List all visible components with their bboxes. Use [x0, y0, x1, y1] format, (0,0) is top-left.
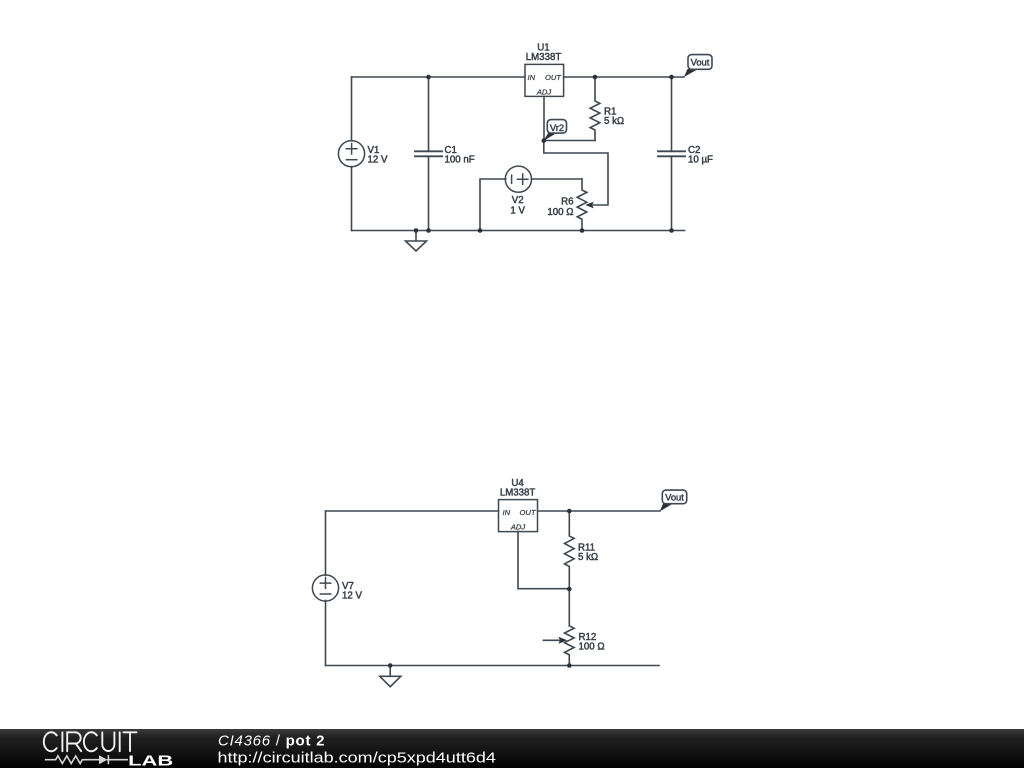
junction ADJ / Vr2 node [542, 138, 547, 143]
wire ADJ pin vertical [543, 96, 545, 140]
junction R6 bottom [580, 228, 585, 233]
wire ADJ down and right [518, 532, 569, 589]
wire C1 vertical [428, 77, 430, 231]
footer bar [0, 729, 1024, 768]
potentiometer R12 [565, 626, 575, 666]
op regulator U1 box [525, 64, 564, 96]
net flag Vr2 [543, 120, 566, 141]
junction C1 top [426, 75, 431, 80]
wire OUT rail (U1 OUT to Vout tail) [564, 76, 684, 78]
wire bottom rail [352, 230, 685, 232]
junction ground rail (lower) [388, 663, 393, 668]
svg-text:5 kΩ: 5 kΩ [604, 116, 624, 127]
wiper arrow into R6 [585, 202, 594, 209]
svg-text:5 kΩ: 5 kΩ [578, 552, 598, 563]
wire V7 vertical [325, 511, 327, 666]
capacitor C2 [658, 151, 685, 156]
junction R1 top [593, 75, 598, 80]
junction R12 bottom [567, 663, 572, 668]
svg-text:ADJ: ADJ [510, 523, 526, 532]
ground (lower) [380, 666, 401, 687]
ground (upper) [406, 231, 427, 252]
capacitor C1 [415, 151, 442, 156]
wire R1 bottom to ADJ node [544, 140, 595, 142]
svg-text:OUT: OUT [545, 73, 562, 82]
junction R11/ADJ node [567, 587, 572, 592]
wire bottom rail [326, 665, 660, 667]
junction ground rail [414, 228, 419, 233]
svg-text:CI4366 / pot 2: CI4366 / pot 2 [218, 732, 325, 749]
svg-text:IN: IN [528, 73, 536, 82]
wire OUT rail (U4 to Vout tail) [538, 510, 660, 512]
svg-text:http://circuitlab.com/cp5xpd4u: http://circuitlab.com/cp5xpd4utt6d4 [218, 749, 496, 766]
regulator U4 box [499, 500, 538, 532]
svg-text:ADJ: ADJ [536, 87, 552, 96]
wire top rail left (V7 to U4 IN) [326, 510, 499, 512]
voltage source V7 [312, 575, 338, 601]
resistor R11 [565, 511, 575, 589]
wire top rail left (V1 top to U1 IN) [352, 76, 526, 78]
svg-text:Vout: Vout [691, 57, 710, 68]
svg-text:Vr2: Vr2 [550, 122, 564, 133]
potentiometer R6 [577, 179, 587, 231]
svg-text:Vout: Vout [665, 492, 684, 503]
svg-text:12 V: 12 V [342, 591, 362, 602]
junction C1 bottom [426, 228, 431, 233]
wire V2 left [480, 179, 506, 231]
R12 wiper arrow [543, 639, 560, 641]
resistor R1 [590, 77, 600, 141]
voltage source V2 [505, 166, 531, 192]
wire wiper path (node to R6 wiper) [544, 141, 608, 206]
svg-text:10 µF: 10 µF [688, 154, 713, 165]
junction R11 top [567, 509, 572, 514]
logo resistor-diode glyph [45, 755, 128, 764]
svg-text:LM338T: LM338T [500, 488, 536, 499]
wire V1 left vertical [351, 77, 353, 231]
net flag Vout (lower) [660, 490, 687, 511]
wire R11 to R12 [568, 589, 570, 626]
svg-text:IN: IN [503, 508, 511, 517]
svg-text:100 Ω: 100 Ω [579, 642, 605, 653]
voltage source V1 [338, 141, 364, 167]
wire V2 right to R6 top [531, 178, 582, 180]
svg-text:100 nF: 100 nF [445, 154, 475, 165]
net flag Vout (upper) [684, 55, 712, 77]
junction C2 top [669, 75, 674, 80]
svg-text:12 V: 12 V [368, 154, 388, 165]
svg-text:OUT: OUT [519, 508, 536, 517]
svg-text:100 Ω: 100 Ω [547, 207, 573, 218]
junction V2 bottom [478, 228, 483, 233]
wire C2 vertical [671, 77, 673, 231]
svg-text:LAB: LAB [128, 753, 173, 768]
svg-text:R6: R6 [561, 197, 573, 208]
junction C2 bottom [669, 228, 674, 233]
CircuitLab logo word CIRCUIT (thin stroke letters), footer svg y = abs-729 [44, 732, 137, 751]
svg-text:1 V: 1 V [510, 205, 525, 216]
svg-text:LM338T: LM338T [526, 52, 562, 63]
